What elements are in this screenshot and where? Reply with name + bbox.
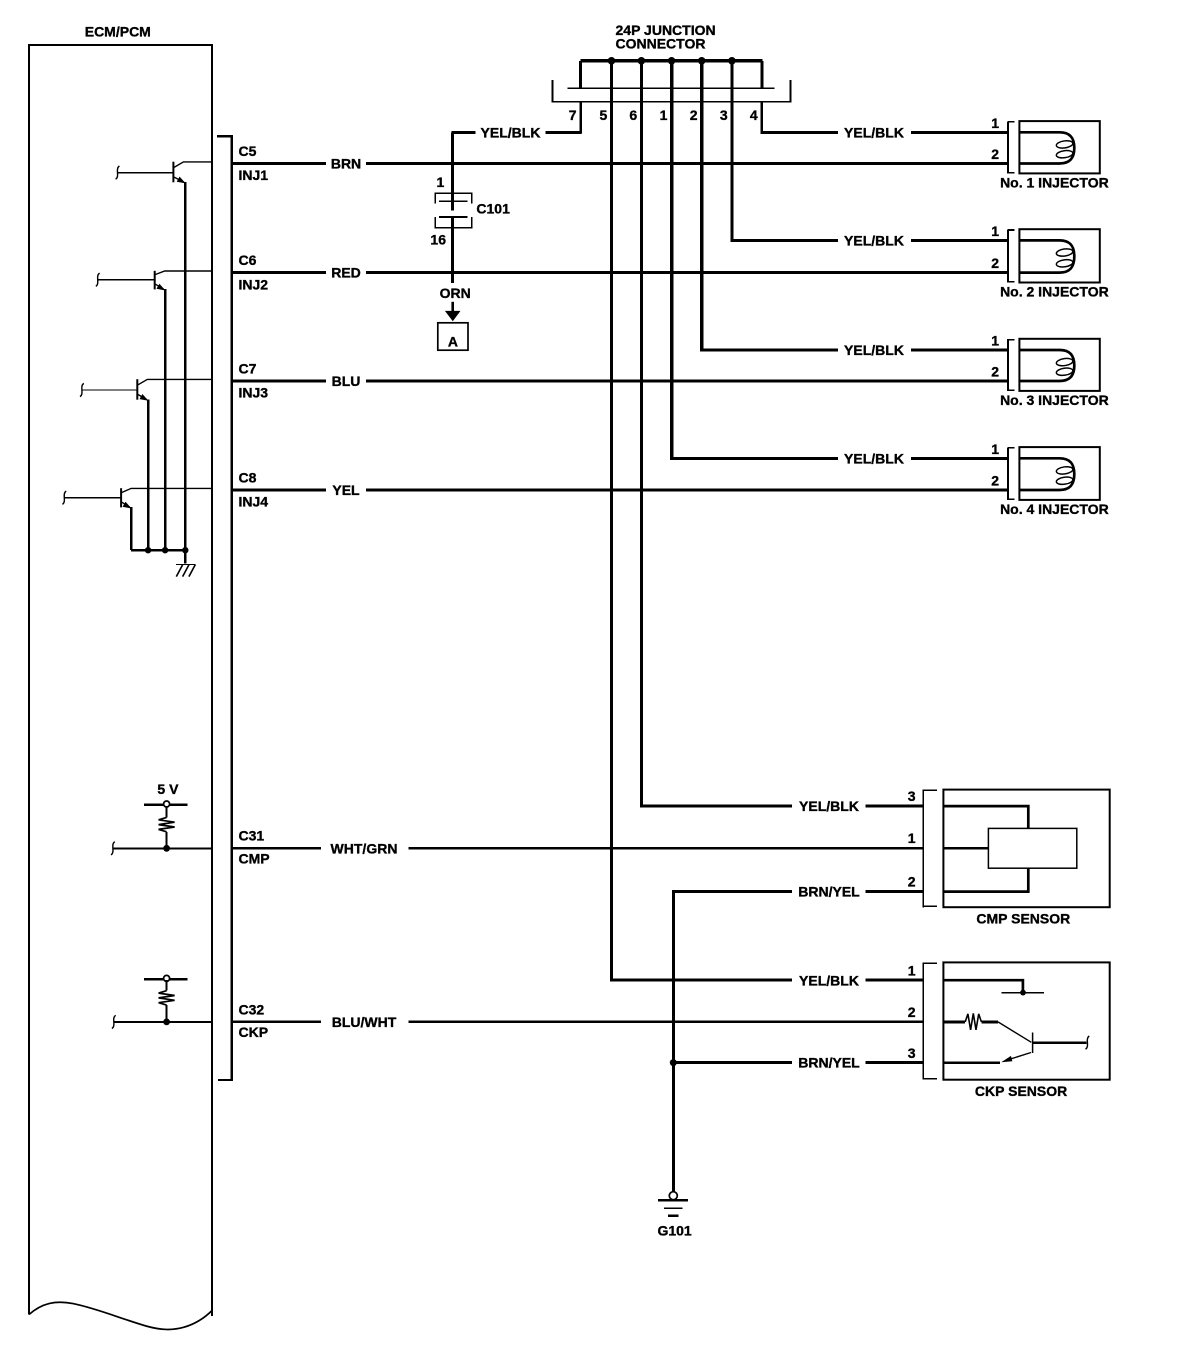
svg-text:CMP: CMP <box>239 850 270 866</box>
svg-text:2: 2 <box>690 107 698 123</box>
svg-text:CKP: CKP <box>239 1024 269 1040</box>
ground G101 <box>658 1192 688 1216</box>
svg-text:YEL/BLK: YEL/BLK <box>799 972 859 988</box>
svg-text:3: 3 <box>908 788 916 804</box>
injector U3 (No.3 injector solenoid) <box>1019 339 1099 391</box>
svg-text:YEL/BLK: YEL/BLK <box>844 233 904 249</box>
transistor Q4 (injector driver) <box>62 488 211 508</box>
svg-text:YEL/BLK: YEL/BLK <box>844 342 904 358</box>
svg-text:2: 2 <box>908 1004 916 1020</box>
wire: junction pin 3 vertical feed (to No.2 injector) <box>730 61 733 242</box>
pin 4 stub wires <box>760 61 763 134</box>
wire RED (C6 to injector pin 2) <box>231 271 1009 274</box>
5V supply rail for R1 <box>144 801 187 817</box>
ECM connector strip (C5-C32 header) <box>217 135 233 1081</box>
svg-text:C32: C32 <box>239 1001 265 1017</box>
wire: R2 to input node <box>166 1005 168 1022</box>
wire: Q2 emitter down to ground bus <box>164 289 166 550</box>
inline connector C101 <box>435 193 472 229</box>
wire: Q3 emitter down to ground bus <box>147 400 149 551</box>
svg-text:1: 1 <box>908 962 916 978</box>
svg-text:No. 1 INJECTOR: No. 1 INJECTOR <box>1000 174 1109 190</box>
wire: junction pin 1 vertical feed (to No.4 injector) <box>670 61 673 460</box>
svg-text:C7: C7 <box>239 360 257 376</box>
wire YEL/BLK (junction pin 7 to C101) <box>451 131 581 134</box>
5V supply rail for R2 <box>144 975 187 990</box>
svg-text:2: 2 <box>991 255 999 271</box>
resistor R2 (pull-up) <box>159 991 175 1005</box>
CKP sensor body (magnetic pickup) <box>943 962 1109 1079</box>
connector bracket (CKP sensor) <box>923 962 937 1079</box>
junction dot at node <box>163 1019 170 1026</box>
wire: emitter ground bus <box>131 549 186 551</box>
wire ORN (C101 pin 16 to connector A) <box>451 217 454 283</box>
wire: junction pin 2 vertical feed (to No.3 injector) <box>700 61 703 352</box>
svg-text:2: 2 <box>908 873 916 889</box>
svg-text:2: 2 <box>991 472 999 488</box>
transistor Q3 (injector driver) <box>80 379 212 401</box>
wire YEL/BLK (junction to No.4 injector pin 1) <box>670 457 1008 460</box>
svg-text:4: 4 <box>750 107 758 123</box>
connector bracket (No.4 injector) <box>1008 447 1014 500</box>
svg-text:INJ1: INJ1 <box>239 167 269 183</box>
svg-text:No. 4 INJECTOR: No. 4 INJECTOR <box>1000 501 1109 517</box>
svg-text:RED: RED <box>331 265 361 281</box>
resistor R1 (pull-up) <box>159 817 175 831</box>
svg-text:1: 1 <box>437 174 445 190</box>
pin C7 / INJ3 labels <box>239 360 269 400</box>
svg-text:No. 2 INJECTOR: No. 2 INJECTOR <box>1000 283 1109 299</box>
ground symbol (ECM internal) <box>176 550 196 576</box>
svg-text:G101: G101 <box>657 1223 691 1239</box>
CMP sensor body <box>943 790 1109 908</box>
pin C5 / INJ1 labels <box>239 143 269 183</box>
svg-text:3: 3 <box>908 1045 916 1061</box>
svg-text:C5: C5 <box>239 143 257 159</box>
junction dots on bus bar <box>608 57 736 65</box>
svg-text:C8: C8 <box>239 469 257 485</box>
pin C6 / INJ2 labels <box>239 252 269 292</box>
svg-text:INJ4: INJ4 <box>239 494 269 510</box>
svg-text:YEL: YEL <box>332 482 360 498</box>
svg-text:C101: C101 <box>476 201 510 217</box>
svg-text:BLU/WHT: BLU/WHT <box>332 1014 397 1030</box>
svg-text:WHT/GRN: WHT/GRN <box>331 840 398 856</box>
svg-text:YEL/BLK: YEL/BLK <box>844 450 904 466</box>
transistor Q2 (injector driver) <box>96 271 212 291</box>
junction dot BRN/YEL <box>670 1059 677 1066</box>
wire: YEL/BLK vertical into connector C101 pin 1 <box>451 132 454 210</box>
connector bracket (No.1 injector) <box>1008 121 1014 173</box>
wire YEL/BLK (junction pin 5 to CKP sensor pin 1) <box>610 979 923 982</box>
pin number labels 7 5 6 1 2 3 4 <box>569 107 758 123</box>
svg-text:1: 1 <box>660 107 668 123</box>
wire BLU/WHT (C32 to CKP sensor pin 2) <box>231 1021 924 1024</box>
injector U4 (No.4 injector solenoid) <box>1019 447 1099 500</box>
pin C32 / CKP labels <box>239 1001 269 1040</box>
wire: internal sensor input line <box>111 842 212 855</box>
svg-text:BRN/YEL: BRN/YEL <box>798 1055 860 1071</box>
wire: R1 to input node <box>166 832 168 849</box>
wire: Q4 emitter down to ground bus <box>130 507 132 550</box>
junction dot at node <box>163 845 170 852</box>
svg-text:CONNECTOR: CONNECTOR <box>616 35 706 51</box>
wire YEL (C8 to injector pin 2) <box>231 489 1009 492</box>
svg-text:1: 1 <box>991 333 999 349</box>
junction dots on emitter bus <box>145 547 189 553</box>
svg-text:No. 3 INJECTOR: No. 3 INJECTOR <box>1000 392 1109 408</box>
24P junction connector bus bar <box>581 59 763 62</box>
svg-text:5: 5 <box>600 107 608 123</box>
svg-text:6: 6 <box>629 107 637 123</box>
wire: Q1 emitter down to ground bus <box>184 182 186 550</box>
svg-text:C31: C31 <box>239 828 265 844</box>
svg-text:7: 7 <box>569 107 577 123</box>
svg-text:BLU: BLU <box>332 373 361 389</box>
wire: internal sensor input line <box>112 1015 212 1028</box>
wire BRN/YEL (CMP sensor pin 2 to G101) <box>672 892 923 1192</box>
svg-text:BRN: BRN <box>331 156 361 172</box>
svg-text:YEL/BLK: YEL/BLK <box>844 124 904 140</box>
svg-text:A: A <box>448 333 458 349</box>
wire WHT/GRN (C31 to CMP sensor pin 1) <box>231 847 924 850</box>
svg-text:INJ2: INJ2 <box>239 276 269 292</box>
connector bracket (No.3 injector) <box>1008 339 1014 391</box>
pin 7 stub wires <box>579 61 582 134</box>
injector U1 (No.1 injector solenoid) <box>1019 121 1099 173</box>
connector bracket (No.2 injector) <box>1008 229 1014 282</box>
svg-text:C6: C6 <box>239 252 257 268</box>
svg-text:5 V: 5 V <box>157 781 179 797</box>
transistor Q1 (injector driver) <box>116 162 212 184</box>
svg-text:1: 1 <box>991 115 999 131</box>
svg-text:ECM/PCM: ECM/PCM <box>85 23 151 39</box>
pin C8 / INJ4 labels <box>239 469 269 509</box>
svg-text:CMP SENSOR: CMP SENSOR <box>976 910 1070 926</box>
connector bracket (CMP sensor) <box>923 790 937 908</box>
svg-text:BRN/YEL: BRN/YEL <box>798 884 860 900</box>
wire BLU (C7 to injector pin 2) <box>231 380 1009 383</box>
wire YEL/BLK (junction to No.2 injector pin 1) <box>731 239 1009 242</box>
svg-text:CKP SENSOR: CKP SENSOR <box>975 1083 1067 1099</box>
wire BRN (C5 to injector pin 2) <box>231 162 1009 165</box>
wire: junction pin 6 vertical feed (to CMP) <box>640 61 643 808</box>
wire BRN/YEL (CKP sensor pin 3 to G101 line) <box>673 1061 923 1064</box>
svg-text:INJ3: INJ3 <box>239 385 269 401</box>
svg-text:1: 1 <box>908 830 916 846</box>
24P junction connector label <box>616 22 716 51</box>
wire YEL/BLK (junction to No.1 injector pin 1) <box>761 131 1009 134</box>
wire: junction pin 5 vertical feed (to CKP) <box>610 61 613 982</box>
svg-text:2: 2 <box>991 363 999 379</box>
wire YEL/BLK (junction pin 6 to CMP sensor pin 3) <box>640 805 923 808</box>
svg-text:1: 1 <box>991 441 999 457</box>
svg-text:ORN: ORN <box>440 285 471 301</box>
off-page arrow to A <box>445 302 461 321</box>
svg-text:16: 16 <box>430 231 446 247</box>
svg-text:YEL/BLK: YEL/BLK <box>799 798 859 814</box>
injector U2 (No.2 injector solenoid) <box>1019 229 1099 282</box>
ECM/PCM enclosure box <box>28 44 213 1329</box>
svg-text:3: 3 <box>720 107 728 123</box>
wire YEL/BLK (junction to No.3 injector pin 1) <box>700 349 1008 352</box>
off-page connector box A <box>438 323 468 350</box>
svg-text:YEL/BLK: YEL/BLK <box>481 124 541 140</box>
pin C31 / CMP labels <box>239 828 270 867</box>
svg-text:2: 2 <box>991 146 999 162</box>
svg-text:1: 1 <box>991 223 999 239</box>
24P junction connector body <box>553 80 791 102</box>
